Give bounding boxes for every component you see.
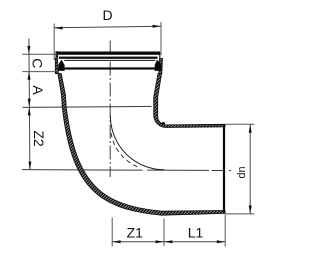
svg-text:dn: dn [236, 166, 248, 178]
centerline horizontal (spigot axis) [22, 169, 225, 172]
centerline horizontal end dot [229, 170, 231, 172]
dimension Z2 arrow bottom [28, 162, 31, 170]
dimension C extension line top [22, 53, 56, 55]
dimension D line [54, 26, 160, 28]
dimension Z1 arrow left [112, 240, 120, 243]
svg-text:Z1: Z1 [127, 224, 144, 240]
svg-text:L1: L1 [188, 224, 204, 240]
dimension Z1 extension line left [111, 218, 113, 247]
dimension dn line [249, 124, 251, 213]
dimension A arrow bottom / Z2 arrow top [28, 107, 31, 115]
bead bottom tick right [158, 72, 162, 74]
dimension C extension line bottom [22, 71, 58, 73]
dimension L1 arrow left [164, 240, 172, 243]
svg-text:D: D [102, 7, 112, 23]
dimension D arrow left [54, 27, 62, 30]
pipe end cap [223, 124, 225, 213]
inner wall band (right wall, throat fillet, spigot top) [154, 74, 225, 128]
svg-text:C: C [30, 58, 46, 68]
outer wall band (left wall, bend heel, spigot bottom) [58, 74, 225, 216]
dimension L1 arrow right [217, 240, 225, 243]
bead wall right [159, 52, 163, 74]
dimension dn arrow top [249, 125, 252, 133]
svg-text:A: A [30, 85, 46, 95]
left dimension chain line [29, 39, 30, 170]
dimension C arrow top [27, 46, 30, 54]
hidden bore arc (dashed) [111, 133, 140, 168]
dimension dn extension line top [225, 123, 254, 125]
seal ring left [58, 60, 64, 71]
dimension dn arrow bottom [249, 206, 252, 214]
dimension Z1/L1 line [112, 241, 225, 243]
bend axis arc [110, 116, 164, 170]
centerline vertical (socket axis) [109, 41, 111, 178]
dimension C arrow bottom [28, 72, 31, 80]
bead wall left [55, 52, 58, 74]
rim inner lip [59, 57, 158, 59]
socket shoulder line [23, 106, 152, 107]
dimension D arrow right [153, 25, 161, 28]
svg-text:Z2: Z2 [31, 130, 47, 147]
dimension L1 extension line right [224, 215, 226, 247]
dimension D extension line right [160, 22, 162, 55]
dimension dn extension line bottom [225, 213, 254, 215]
dimension Z1 arrow right [156, 240, 164, 243]
dimension D extension line left [53, 24, 55, 61]
dimension A arrow top [28, 99, 31, 107]
socket rim [56, 52, 160, 55]
seal ring right [155, 60, 162, 71]
bead bottom tick left [55, 72, 59, 74]
dimension Z1/L1 shared extension line [163, 219, 165, 247]
seal groove lower line [64, 67, 155, 69]
throat corner nub [162, 122, 166, 124]
seal groove upper line [64, 59, 155, 61]
